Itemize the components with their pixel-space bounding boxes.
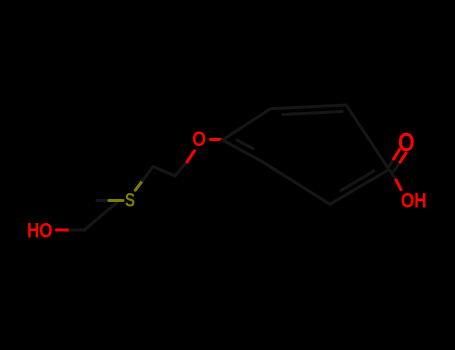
svg-text:O: O bbox=[192, 127, 206, 151]
bond C2-S dark half bbox=[97, 199, 109, 202]
bond C2-S yellow half bbox=[109, 199, 123, 202]
bond C4-O2 dark half bbox=[175, 162, 187, 176]
svg-text:HO: HO bbox=[27, 219, 53, 243]
bond O1-C1 red half bbox=[57, 229, 71, 232]
bond C3-C4 bbox=[153, 167, 175, 177]
benzene ring outline bbox=[223, 105, 390, 204]
C=O double bond line1 red half bbox=[394, 150, 400, 159]
bond O1-C1 dark half bbox=[70, 229, 85, 232]
bond C5-O3 dark half bbox=[390, 171, 396, 181]
C=O double bond line2 red half bbox=[400, 153, 406, 162]
bond C1-C2 bbox=[85, 202, 118, 230]
svg-text:S: S bbox=[125, 190, 135, 212]
C=O double bond line1 dark half bbox=[388, 159, 394, 168]
svg-text:O: O bbox=[398, 128, 415, 158]
ring inner double bond lower-right bbox=[341, 171, 374, 191]
ring inner double bond left bbox=[237, 140, 253, 149]
C=O double bond line2 dark half bbox=[394, 162, 400, 171]
bond S-C3 yellow half bbox=[135, 181, 142, 191]
bond C5-O3 red half bbox=[396, 180, 401, 190]
wire bbox=[27, 105, 427, 243]
bond O2-W red bbox=[211, 138, 223, 141]
bond C4-O2 red half bbox=[187, 151, 194, 162]
ring inner double bond top bbox=[283, 112, 342, 115]
svg-text:OH: OH bbox=[401, 189, 427, 213]
bond S-C3 dark half bbox=[143, 167, 153, 181]
